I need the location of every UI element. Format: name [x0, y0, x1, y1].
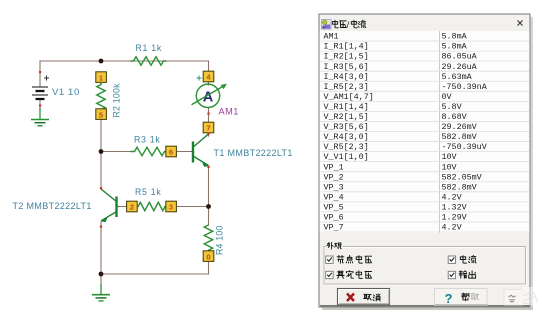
title 电压/电流 [332, 20, 346, 28]
pin box 0 (R4 bottom) [203, 251, 214, 262]
pin box 4 (AM1 +) [203, 71, 214, 82]
table row I_R1[1,4] [320, 50, 530, 52]
svg-text:582.8mV: 582.8mV [442, 132, 477, 142]
wire box6 to T1 base [177, 151, 192, 153]
resistor R2 [96, 72, 107, 120]
pin box 6 (R3 right) [166, 146, 177, 157]
resistor R3 [131, 146, 177, 157]
svg-text:10V: 10V [442, 162, 457, 172]
wire right column top to box4 [208, 61, 210, 72]
svg-text:I_R1[1,4]: I_R1[1,4] [324, 42, 369, 52]
svg-text:-750.39nA: -750.39nA [442, 82, 488, 92]
table row V_R2[1,5] [320, 120, 530, 122]
svg-text:VP_1: VP_1 [324, 162, 344, 172]
node junction top [99, 59, 104, 64]
wire top rail from V1 to right column [40, 60, 209, 62]
svg-text:4.2V: 4.2V [442, 223, 462, 233]
wire T1 emitter down to R5 junction [208, 167, 210, 207]
svg-text:V_R1[1,4]: V_R1[1,4] [324, 102, 369, 112]
wire T2 base to box2 [118, 206, 127, 208]
wire V1 top lead [39, 61, 41, 86]
svg-text:R2 100k: R2 100k [112, 83, 122, 118]
pin box 1 (R2 top) [96, 72, 107, 83]
table row VP_6 [320, 221, 530, 223]
table row VP_4 [320, 201, 530, 203]
watermark bottom-right [504, 287, 538, 305]
svg-text:1.29V: 1.29V [442, 213, 467, 223]
ground under V1 [31, 108, 49, 126]
table row I_R4[3,0] [320, 80, 530, 82]
svg-text:V_AM1[4,7]: V_AM1[4,7] [324, 92, 374, 102]
svg-text:?: ? [445, 291, 453, 306]
svg-text:5.8mA: 5.8mA [442, 42, 468, 52]
button 帮助 (help) [435, 289, 488, 307]
wire R3 row [101, 151, 131, 153]
checkbox 其它电压 [326, 271, 333, 278]
svg-text:2: 2 [130, 203, 134, 212]
svg-text:I_R2[1,5]: I_R2[1,5] [324, 52, 369, 62]
svg-text:0: 0 [206, 252, 210, 261]
svg-text:V_R4[3,0]: V_R4[3,0] [324, 132, 369, 142]
wire ground stem below bottom rail [100, 274, 102, 286]
svg-text:5.63mA: 5.63mA [442, 72, 473, 82]
table column divider [439, 31, 441, 233]
svg-text:582.8mV: 582.8mV [442, 182, 477, 192]
table row AM1 [320, 40, 530, 42]
pin box 7 (AM1 -) [203, 122, 214, 133]
table row I_R5[2,3] [320, 90, 530, 92]
svg-text:T1 MMBT2222LT1: T1 MMBT2222LT1 [214, 148, 293, 158]
svg-text:AM1: AM1 [219, 107, 239, 117]
table row VP_3 [320, 191, 530, 193]
table row VP_2 [320, 181, 530, 183]
svg-text:29.26mV: 29.26mV [442, 122, 477, 132]
node junction R3 tap [99, 149, 104, 154]
svg-text:V_R5[2,3]: V_R5[2,3] [324, 142, 369, 152]
svg-text:5.8mA: 5.8mA [442, 32, 468, 42]
close X [518, 21, 523, 26]
checkbox 节点电压 [326, 256, 333, 263]
pin box 5 (R2 bottom) [96, 109, 107, 120]
table row lines + text inserted here [320, 32, 530, 233]
svg-text:5: 5 [99, 110, 103, 119]
svg-text:5.8V: 5.8V [442, 102, 462, 112]
svg-text:VP_5: VP_5 [324, 202, 344, 212]
wire V1 bottom lead [39, 99, 41, 110]
node junction bottom rail [99, 272, 104, 277]
transistor T2 [100, 187, 119, 228]
svg-text:V_V1[1,0]: V_V1[1,0] [324, 152, 369, 162]
svg-text:V_R3[5,6]: V_R3[5,6] [324, 122, 369, 132]
svg-text:I_R4[3,0]: I_R4[3,0] [324, 72, 369, 82]
svg-text:86.05uA: 86.05uA [442, 52, 478, 62]
table row V_R4[3,0] [320, 141, 530, 143]
resistor R5 [127, 201, 177, 212]
ground bottom [92, 284, 110, 301]
table row V_R1[1,4] [320, 110, 530, 112]
ammeter AM1 [192, 71, 228, 133]
svg-text:I_R5[2,3]: I_R5[2,3] [324, 82, 369, 92]
svg-text:582.05mV: 582.05mV [442, 172, 482, 182]
wire R4 box0 to bottom rail [208, 262, 210, 275]
svg-text:T2 MMBT2222LT1: T2 MMBT2222LT1 [13, 201, 92, 211]
svg-text:VP_2: VP_2 [324, 172, 344, 182]
transistor T1 [191, 133, 210, 168]
svg-text:R1 1k: R1 1k [136, 43, 162, 53]
table row VP_1 [320, 171, 530, 173]
svg-text:1: 1 [99, 73, 103, 82]
table row VP_5 [320, 211, 530, 213]
svg-text:V1 10: V1 10 [52, 87, 80, 98]
wire R5 junction to R4 [208, 207, 210, 226]
svg-text:-750.39uV: -750.39uV [442, 142, 487, 152]
groupbox label 外观 [327, 242, 341, 249]
svg-text:VP_4: VP_4 [324, 192, 344, 202]
panel shadow [531, 17, 534, 309]
svg-text:I_R3[5,6]: I_R3[5,6] [324, 62, 369, 72]
table row V_R5[2,3] [320, 151, 530, 153]
svg-text:10V: 10V [442, 152, 457, 162]
titlebar icon [322, 20, 332, 30]
wire T2 emitter down to bottom rail [100, 222, 102, 274]
svg-text:3: 3 [169, 203, 173, 212]
table row I_R3[5,6] [320, 70, 530, 72]
checkbox 输出 [448, 271, 455, 278]
table row VP_7 [320, 231, 530, 233]
wire box4 to ammeter [208, 82, 210, 86]
svg-text:4.2V: 4.2V [442, 192, 462, 202]
checkbox 电流 [448, 256, 455, 263]
resistor R4 [203, 225, 214, 261]
table background [320, 31, 530, 233]
groupbox 外观 [324, 242, 526, 285]
svg-text:V_R2[1,5]: V_R2[1,5] [324, 112, 369, 122]
svg-text:8.68V: 8.68V [442, 112, 467, 122]
battery V1 [32, 71, 49, 107]
table row V_V1[1,0] [320, 161, 530, 163]
wire left column R2 to T2 [100, 119, 102, 189]
svg-text:AM1: AM1 [324, 32, 339, 42]
pin box 2 (R5 left) [127, 201, 138, 212]
wire box7 to T1 collector [208, 133, 210, 137]
wire ammeter to box7 [208, 108, 210, 123]
svg-text:7: 7 [206, 124, 210, 133]
button 取消 [338, 289, 390, 306]
table row V_AM1[4,7] [320, 100, 530, 102]
resistor R1 [131, 57, 167, 65]
svg-text:VP_3: VP_3 [324, 182, 344, 192]
wire box3 to R5 junction [177, 206, 209, 208]
table row V_R3[5,6] [320, 131, 530, 133]
pin box 3 (R5 right) [166, 201, 177, 212]
svg-text:29.26uA: 29.26uA [442, 62, 478, 72]
wire bottom rail [101, 273, 209, 275]
svg-text:R5 1k: R5 1k [135, 187, 161, 197]
svg-text:R3 1k: R3 1k [134, 135, 160, 145]
svg-text:VP_6: VP_6 [324, 213, 344, 223]
svg-text:R4 100: R4 100 [215, 225, 225, 255]
svg-text:0V: 0V [442, 92, 452, 102]
panel body [319, 14, 530, 307]
node junction R5/R4 [206, 204, 211, 209]
svg-text:VP_7: VP_7 [324, 223, 344, 233]
svg-text:6: 6 [169, 148, 173, 157]
table row I_R2[1,5] [320, 60, 530, 62]
svg-text:1.32V: 1.32V [442, 202, 467, 212]
